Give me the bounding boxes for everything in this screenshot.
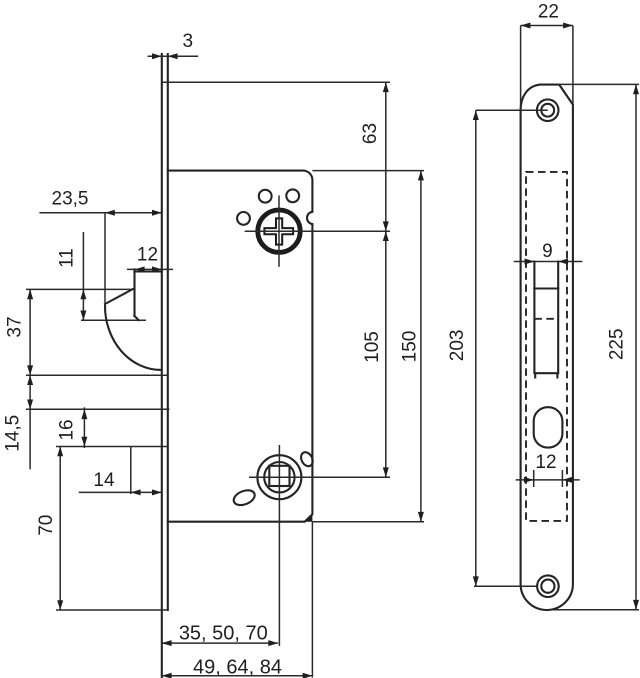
dimension 22 (faceplate width) xyxy=(521,1,573,110)
oval hole upper-right of follower xyxy=(299,450,315,468)
hidden edge for 14 dimension xyxy=(130,447,132,495)
dimension 23,5 (backset edge) xyxy=(39,189,161,216)
faceplate stadium outline xyxy=(521,85,573,610)
svg-text:70: 70 xyxy=(36,515,57,536)
lower follower inner circle xyxy=(264,462,294,492)
svg-text:16: 16 xyxy=(57,419,78,440)
svg-text:203: 203 xyxy=(447,330,468,362)
svg-text:105: 105 xyxy=(362,331,383,363)
top screw hole inner xyxy=(541,104,554,117)
svg-text:150: 150 xyxy=(399,331,420,363)
dimension 12 (oval width, right view) xyxy=(516,452,580,487)
square follower hole xyxy=(269,466,289,486)
oval deadbolt hole xyxy=(534,407,563,447)
extension line for 23,5 at latch tip xyxy=(104,213,106,305)
spindle horizontal centerline xyxy=(245,230,390,232)
small circle C left of spindle xyxy=(237,212,250,225)
latch bolt left edge xyxy=(533,262,535,374)
svg-text:35, 50, 70: 35, 50, 70 xyxy=(179,623,268,645)
lock body outline xyxy=(168,171,313,522)
svg-text:14,5: 14,5 xyxy=(3,415,24,452)
svg-text:22: 22 xyxy=(538,1,559,22)
bottom screw hole outer xyxy=(537,575,559,597)
dimension 150 (body height) xyxy=(399,171,424,522)
faceplate bottom cap / 70 bottom reference line xyxy=(56,609,168,611)
dimension 14,5 xyxy=(3,375,33,452)
svg-text:225: 225 xyxy=(607,328,628,360)
follower horizontal centerline xyxy=(249,476,390,478)
small circle A above spindle xyxy=(259,190,272,203)
latch top reference line xyxy=(26,288,133,290)
svg-text:37: 37 xyxy=(4,316,25,337)
svg-text:9: 9 xyxy=(542,241,553,262)
top screw hole outer xyxy=(537,99,559,121)
body bottom edge extension xyxy=(312,521,424,523)
faceplate strip left edge xyxy=(161,54,163,677)
dimension 63 / 105 shared line xyxy=(360,82,389,477)
top reference line (faceplate top) xyxy=(162,81,390,83)
latch bottom edge with feet xyxy=(535,373,557,377)
dimension 49, 64, 84 (body depth) xyxy=(162,657,313,678)
body right edge extension to bottom dim xyxy=(311,522,313,678)
svg-text:12: 12 xyxy=(535,452,556,473)
svg-text:3: 3 xyxy=(183,31,194,52)
latch bevel diagonal xyxy=(105,289,133,304)
dimension 14 xyxy=(79,470,162,495)
small circle B above spindle right xyxy=(286,189,299,202)
dimension 16 xyxy=(57,407,88,448)
reference line 14,5 bottom xyxy=(26,408,170,410)
latch head front face xyxy=(133,269,135,316)
reference line 37 bottom xyxy=(26,374,168,376)
spindle vertical centerline xyxy=(278,195,280,266)
latch bevel line xyxy=(534,287,558,289)
bottom screw hole inner xyxy=(541,580,554,593)
latch curved face xyxy=(105,306,161,370)
dimension 3 (faceplate thickness) xyxy=(148,31,199,59)
latch bottom reference line xyxy=(81,319,146,321)
svg-text:14: 14 xyxy=(93,470,115,491)
latch bolt right edge xyxy=(557,262,559,374)
dimension 37 (latch to deadbolt zone) xyxy=(4,289,33,469)
reference line 16 bottom / 70 top xyxy=(56,446,168,448)
dimension 11 (latch head height) xyxy=(57,232,87,320)
follower vertical centerline xyxy=(278,445,280,646)
oval hole lower-left of follower xyxy=(232,487,257,507)
svg-text:12: 12 xyxy=(137,245,158,266)
bottom-right chamfer corner fill xyxy=(305,514,313,522)
spindle hole thick ring xyxy=(258,210,300,252)
phillips cross in spindle hole xyxy=(264,218,293,244)
lower follower outer circle xyxy=(257,455,301,499)
svg-text:11: 11 xyxy=(57,248,78,268)
faceplate strip right edge xyxy=(167,54,169,610)
svg-text:23,5: 23,5 xyxy=(52,189,89,210)
latch hidden edge dashed xyxy=(534,318,558,320)
dimension 9 (latch width) xyxy=(514,241,583,265)
dimension 12 (latch projection, left view) xyxy=(127,245,173,273)
latch head top edge xyxy=(135,270,162,272)
dimension 203 (screw centres) xyxy=(447,110,548,586)
dimension 35, 50, 70 (backset to follower) xyxy=(162,623,278,647)
dimension 225 (faceplate length) xyxy=(549,84,639,609)
body top edge extension xyxy=(312,170,424,172)
svg-text:49, 64, 84: 49, 64, 84 xyxy=(193,657,282,678)
hidden lock body dashed rectangle xyxy=(526,172,567,521)
latch head foot bevel xyxy=(135,316,139,320)
svg-text:63: 63 xyxy=(360,123,381,144)
dimension 70 xyxy=(36,447,63,611)
